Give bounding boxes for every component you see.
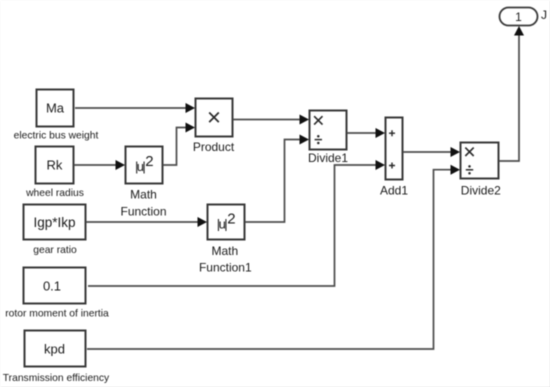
svg-text:|u|: |u| [217, 216, 227, 231]
svg-text:Rk: Rk [47, 158, 63, 173]
wire Math Function to Product input2 [163, 128, 187, 166]
math function block |u|^2 (Math Function) [120, 147, 166, 219]
svg-text:J: J [541, 8, 547, 22]
svg-text:wheel radius: wheel radius [25, 188, 84, 199]
svg-text:electric bus weight: electric bus weight [14, 131, 99, 142]
svg-text:Function: Function [120, 205, 166, 219]
divide block (Divide1) [308, 111, 348, 166]
wire Ma to Product input1 [75, 107, 187, 109]
svg-text:0.1: 0.1 [43, 279, 61, 294]
constant block Ma [37, 90, 74, 127]
wire Divide1 to Add1 input1 [347, 132, 377, 134]
svg-text:Ma: Ma [46, 101, 65, 116]
constant block Rk [36, 147, 74, 184]
wire Igp*Ikp to Math Function1 input [86, 221, 199, 223]
sum block (Add1) [380, 118, 408, 198]
wire Divide2 to output port 1 [499, 34, 519, 161]
svg-text:Math: Math [130, 188, 157, 202]
svg-text:Transmission efficiency: Transmission efficiency [3, 373, 110, 384]
svg-text:kpd: kpd [44, 342, 65, 357]
output port 1 (oval) [500, 8, 538, 26]
math function block |u|^2 (Math Function1) [199, 205, 252, 275]
constant block kpd [25, 331, 86, 367]
svg-text:Math: Math [211, 244, 238, 258]
svg-text:Add1: Add1 [380, 184, 408, 198]
svg-text:gear ratio: gear ratio [33, 245, 77, 256]
product block (Product) [193, 99, 235, 155]
svg-text:2: 2 [227, 211, 235, 228]
svg-text:rotor moment of inertia: rotor moment of inertia [5, 309, 109, 320]
wire Product to Divide1 input1 [233, 119, 301, 121]
svg-text:Product: Product [193, 140, 235, 154]
wire 0.1 to Add1 input2 [88, 165, 377, 286]
wire kpd to Divide2 input2 [87, 170, 452, 349]
divide block (Divide2) [461, 143, 502, 198]
constant block 0.1 [24, 268, 86, 304]
svg-text:Function1: Function1 [199, 261, 252, 275]
svg-text:Igp*Ikp: Igp*Ikp [33, 215, 75, 230]
svg-text:Divide1: Divide1 [308, 151, 348, 165]
wire Math Function1 to Divide1 input2 [245, 140, 301, 223]
svg-text:|u|: |u| [135, 159, 145, 174]
svg-text:1: 1 [515, 10, 522, 24]
wire Rk to Math Function input [74, 164, 117, 166]
constant block Igp*Ikp [24, 205, 86, 240]
svg-text:2: 2 [145, 153, 153, 170]
wire Add1 to Divide2 input1 [403, 151, 452, 153]
svg-text:Divide2: Divide2 [461, 184, 501, 198]
